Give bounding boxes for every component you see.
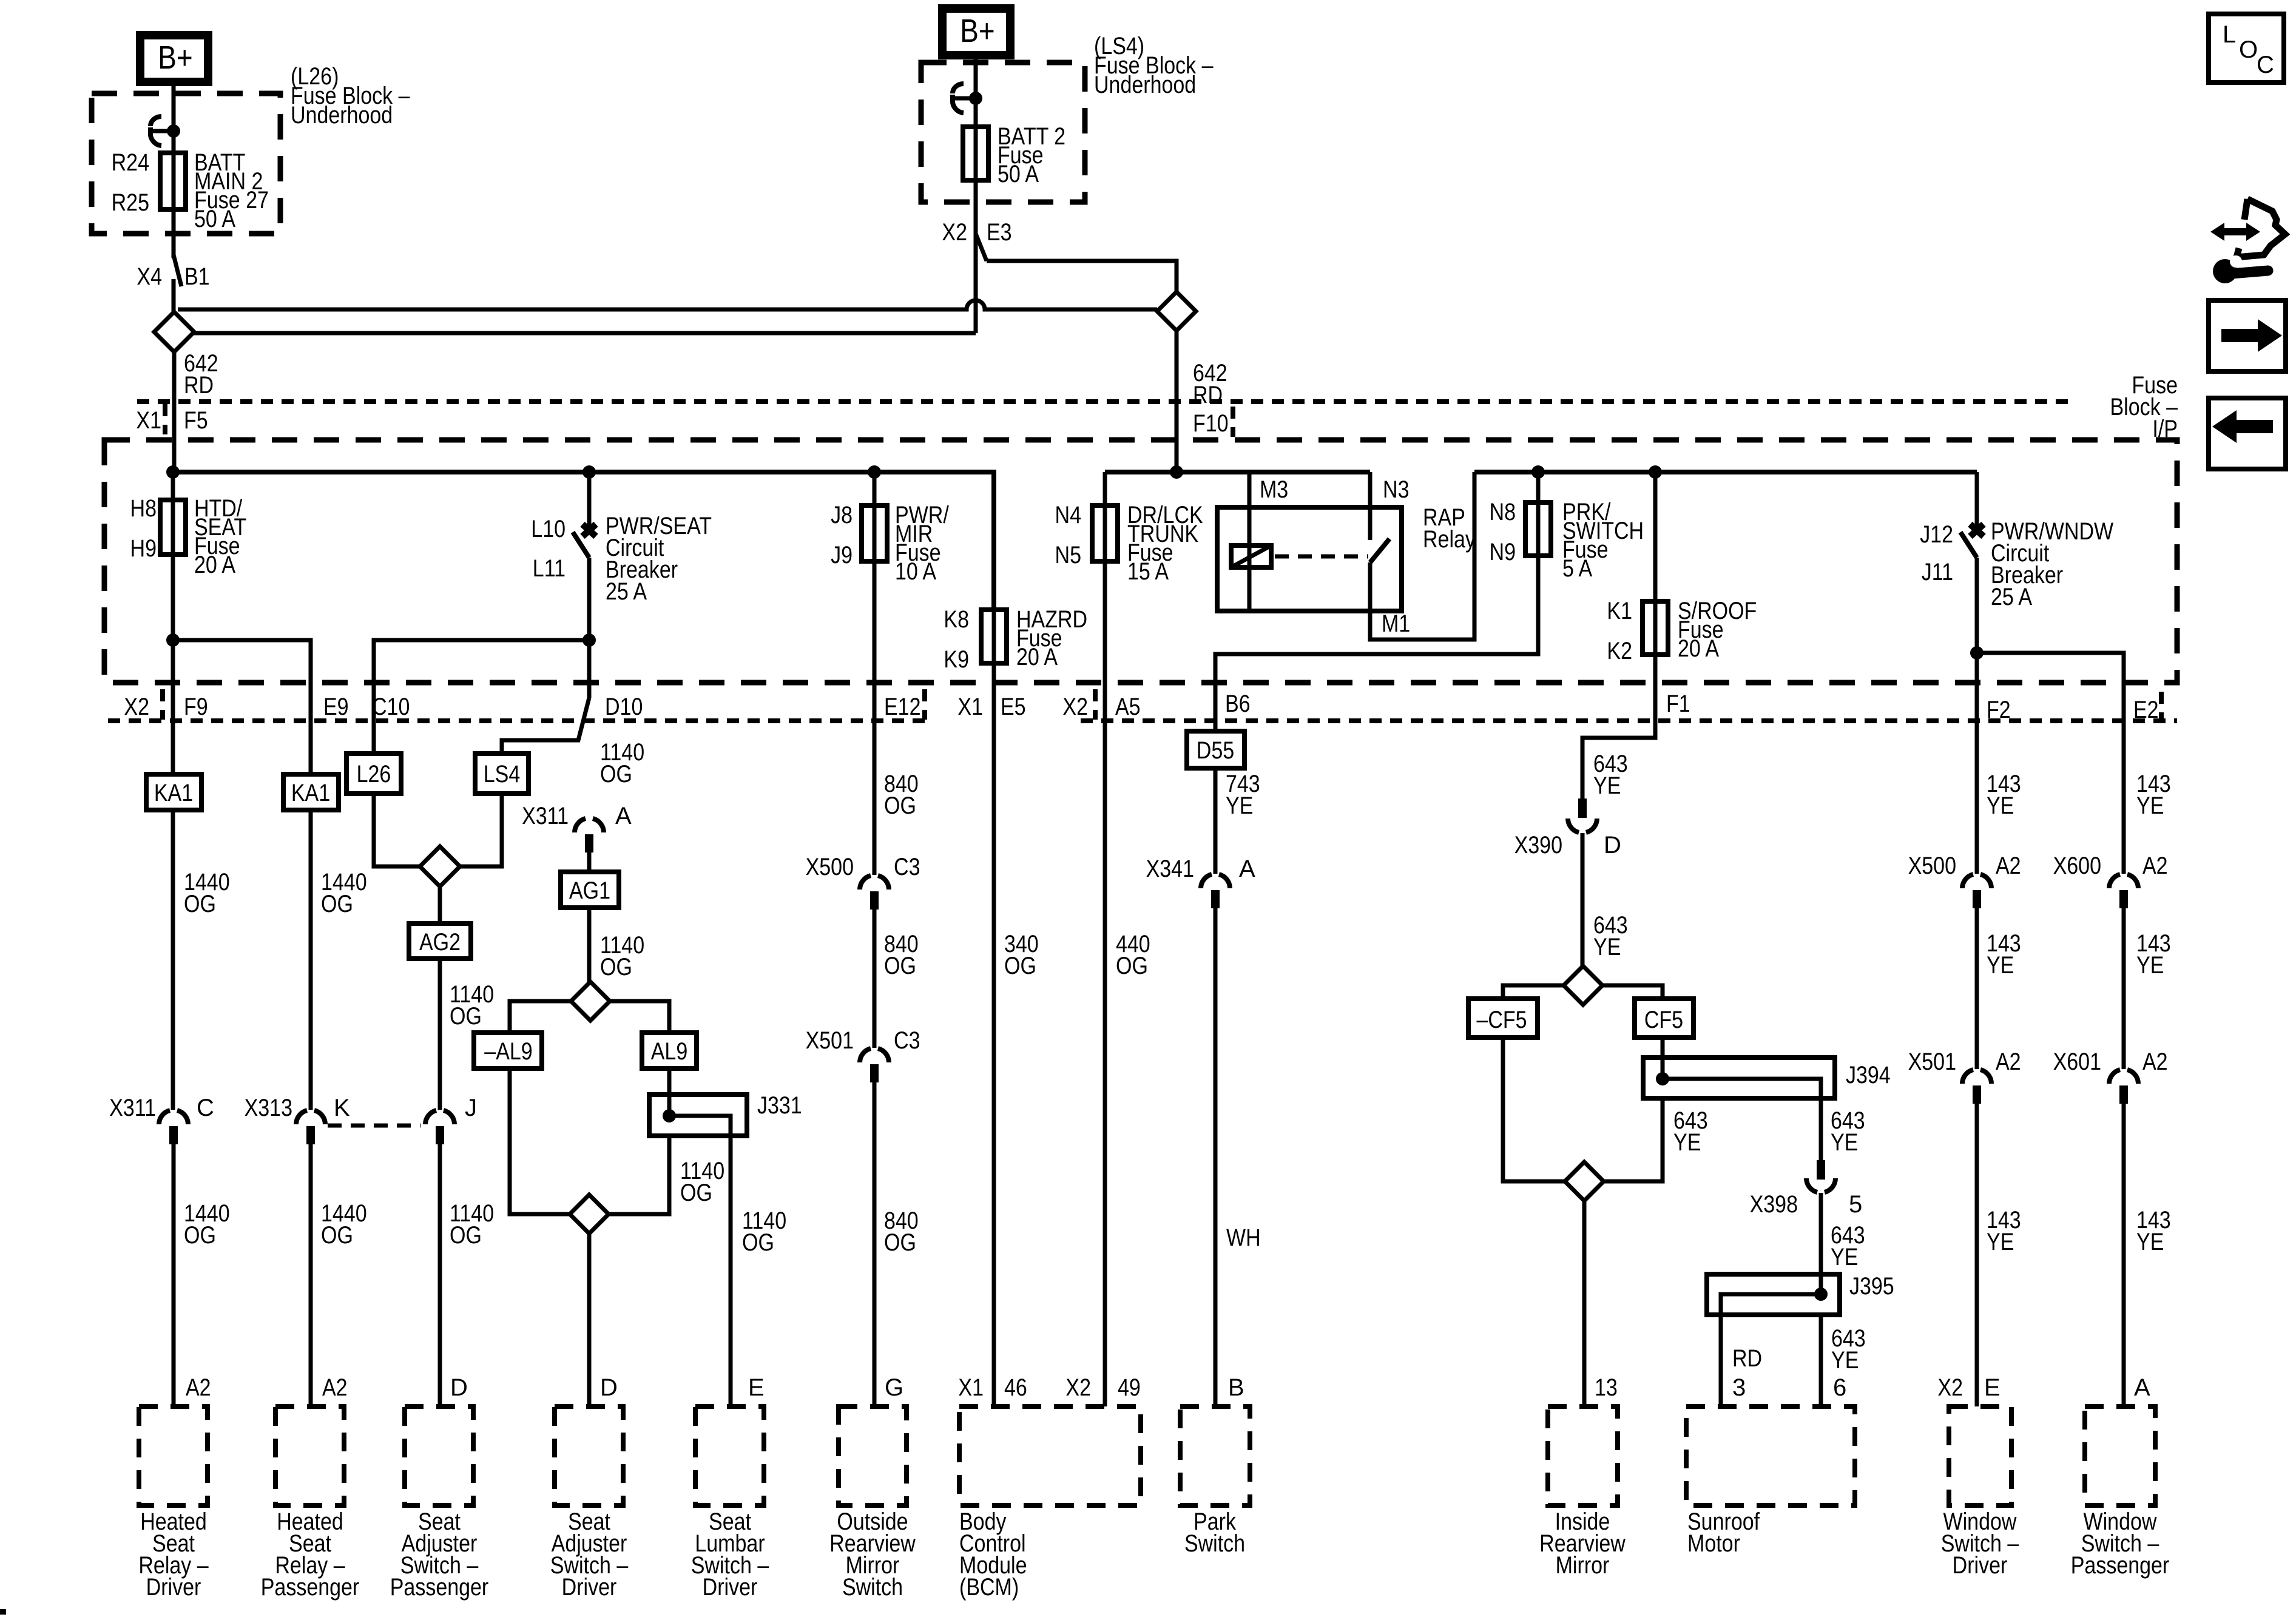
svg-text:J9: J9: [831, 542, 853, 569]
svg-text:Driver: Driver: [1953, 1552, 2008, 1579]
svg-text:Underhood: Underhood: [1094, 72, 1196, 98]
svg-text:N9: N9: [1490, 539, 1516, 565]
svg-text:KA1: KA1: [154, 780, 193, 806]
svg-text:D55: D55: [1197, 737, 1234, 764]
svg-text:X1: X1: [958, 1374, 984, 1401]
svg-text:YE: YE: [1593, 934, 1621, 960]
svg-text:RD: RD: [1193, 382, 1223, 408]
svg-text:E5: E5: [1001, 694, 1026, 720]
svg-text:J331: J331: [757, 1092, 802, 1119]
svg-text:F2: F2: [1987, 697, 2011, 723]
svg-text:J11: J11: [1922, 559, 1953, 586]
svg-text:YE: YE: [1831, 1244, 1858, 1271]
svg-text:YE: YE: [1987, 1229, 2014, 1255]
svg-text:OG: OG: [600, 761, 632, 788]
svg-text:X501: X501: [1908, 1048, 1956, 1075]
svg-text:Relay: Relay: [1423, 526, 1476, 553]
svg-text:M3: M3: [1260, 476, 1288, 503]
svg-text:F1: F1: [1666, 690, 1690, 717]
svg-text:46: 46: [1004, 1374, 1027, 1401]
svg-text:F10: F10: [1193, 410, 1229, 437]
svg-text:LS4: LS4: [484, 761, 521, 788]
svg-text:YE: YE: [1673, 1129, 1701, 1156]
svg-text:K2: K2: [1607, 638, 1632, 664]
svg-text:R24: R24: [112, 149, 149, 176]
svg-text:A2: A2: [2142, 852, 2168, 879]
svg-text:E: E: [1984, 1374, 2001, 1401]
svg-text:D10: D10: [605, 694, 643, 720]
svg-text:OG: OG: [450, 1222, 482, 1249]
svg-text:Driver: Driver: [562, 1574, 617, 1601]
svg-text:WH: WH: [1226, 1224, 1261, 1251]
svg-text:RD: RD: [1732, 1345, 1762, 1372]
svg-text:YE: YE: [1831, 1129, 1858, 1156]
svg-text:R25: R25: [112, 189, 149, 216]
svg-text:E: E: [748, 1374, 765, 1401]
svg-text:10 A: 10 A: [895, 558, 936, 585]
svg-text:N8: N8: [1490, 499, 1516, 525]
svg-text:YE: YE: [1226, 792, 1253, 819]
svg-text:X600: X600: [2053, 852, 2101, 879]
svg-text:OG: OG: [884, 792, 916, 819]
svg-text:OG: OG: [321, 891, 353, 917]
svg-text:Passenger: Passenger: [261, 1574, 360, 1601]
svg-text:J8: J8: [831, 502, 853, 528]
svg-text:B+: B+: [960, 13, 994, 49]
svg-text:G: G: [885, 1374, 903, 1401]
svg-text:–AL9: –AL9: [484, 1038, 532, 1065]
svg-text:OG: OG: [600, 954, 632, 981]
svg-text:Passenger: Passenger: [2071, 1552, 2170, 1579]
svg-text:AL9: AL9: [651, 1038, 688, 1065]
svg-text:Driver: Driver: [703, 1574, 758, 1601]
svg-text:50 A: 50 A: [194, 206, 235, 232]
svg-text:YE: YE: [2136, 952, 2164, 979]
svg-text:YE: YE: [2136, 1229, 2164, 1255]
svg-text:A: A: [615, 803, 632, 829]
svg-text:E2: E2: [2133, 697, 2159, 723]
svg-text:K1: K1: [1607, 598, 1632, 624]
svg-text:B: B: [1228, 1374, 1244, 1401]
svg-text:X341: X341: [1146, 856, 1194, 882]
svg-text:A2: A2: [2142, 1048, 2168, 1075]
svg-text:OG: OG: [1116, 953, 1148, 979]
svg-text:X2: X2: [1062, 694, 1088, 720]
svg-text:5 A: 5 A: [1562, 555, 1592, 582]
svg-text:Switch: Switch: [1184, 1530, 1245, 1557]
svg-text:X501: X501: [806, 1027, 854, 1054]
svg-text:–CF5: –CF5: [1476, 1007, 1527, 1033]
svg-text:A: A: [1239, 856, 1255, 882]
svg-text:OG: OG: [884, 953, 916, 979]
svg-text:D: D: [600, 1374, 618, 1401]
svg-text:Underhood: Underhood: [291, 102, 393, 129]
svg-text:X500: X500: [1908, 852, 1956, 879]
svg-text:N3: N3: [1383, 476, 1410, 503]
svg-text:H9: H9: [130, 535, 157, 562]
svg-text:X2: X2: [124, 694, 149, 720]
svg-text:25 A: 25 A: [1991, 584, 2032, 610]
svg-text:C3: C3: [894, 854, 920, 880]
svg-text:B1: B1: [184, 263, 210, 290]
svg-text:K8: K8: [944, 606, 969, 633]
svg-text:X601: X601: [2053, 1048, 2101, 1075]
svg-text:15 A: 15 A: [1127, 558, 1169, 585]
svg-text:J394: J394: [1846, 1062, 1891, 1089]
svg-text:20 A: 20 A: [194, 552, 235, 578]
svg-text:E12: E12: [884, 694, 921, 720]
svg-text:J: J: [465, 1095, 477, 1121]
svg-text:20 A: 20 A: [1678, 635, 1719, 662]
svg-text:X1: X1: [957, 694, 983, 720]
svg-text:X398: X398: [1750, 1191, 1798, 1218]
svg-text:X2: X2: [1065, 1374, 1091, 1401]
svg-text:J12: J12: [1920, 521, 1953, 548]
svg-text:C10: C10: [372, 694, 410, 720]
svg-text:OG: OG: [184, 891, 216, 917]
svg-text:YE: YE: [1593, 772, 1621, 799]
svg-text:X311: X311: [522, 803, 569, 829]
svg-text:K9: K9: [944, 646, 969, 673]
svg-text:AG2: AG2: [419, 929, 461, 956]
svg-text:AG1: AG1: [569, 877, 610, 904]
svg-text:A5: A5: [1115, 694, 1141, 720]
svg-text:D: D: [450, 1374, 468, 1401]
svg-text:5: 5: [1849, 1191, 1862, 1218]
svg-text:OG: OG: [321, 1222, 353, 1249]
svg-text:Mirror: Mirror: [1556, 1552, 1610, 1579]
svg-text:C: C: [2257, 52, 2274, 78]
svg-text:YE: YE: [1987, 952, 2014, 979]
svg-text:13: 13: [1595, 1374, 1618, 1401]
svg-text:3: 3: [1732, 1374, 1746, 1401]
svg-text:YE: YE: [2136, 792, 2164, 819]
svg-text:RD: RD: [184, 372, 214, 399]
svg-text:OG: OG: [680, 1180, 712, 1206]
svg-text:A2: A2: [186, 1374, 211, 1401]
svg-text:Motor: Motor: [1687, 1530, 1740, 1557]
svg-text:O: O: [2239, 36, 2258, 63]
svg-text:Switch: Switch: [842, 1574, 903, 1601]
svg-text:N5: N5: [1055, 542, 1082, 569]
svg-text:X390: X390: [1514, 832, 1562, 859]
svg-text:OG: OG: [184, 1222, 216, 1249]
svg-text:B+: B+: [158, 39, 192, 76]
svg-text:X311: X311: [109, 1095, 156, 1121]
svg-text:N4: N4: [1055, 502, 1082, 528]
svg-text:X2: X2: [1937, 1374, 1963, 1401]
svg-text:F5: F5: [184, 407, 208, 434]
svg-text:50 A: 50 A: [998, 161, 1039, 187]
svg-text:L10: L10: [531, 516, 566, 542]
svg-text:25 A: 25 A: [606, 578, 647, 605]
svg-text:X500: X500: [806, 854, 854, 880]
svg-text:OG: OG: [884, 1229, 916, 1256]
svg-text:L: L: [2223, 21, 2236, 48]
svg-text:L11: L11: [533, 555, 566, 582]
svg-text:X4: X4: [137, 263, 162, 290]
svg-text:D: D: [1604, 832, 1621, 859]
svg-text:YE: YE: [1831, 1347, 1859, 1374]
svg-text:Driver: Driver: [146, 1574, 201, 1601]
svg-text:F9: F9: [184, 694, 208, 720]
svg-text:C3: C3: [894, 1027, 920, 1054]
svg-text:OG: OG: [742, 1229, 774, 1256]
svg-text:KA1: KA1: [291, 780, 330, 806]
svg-text:A2: A2: [1996, 852, 2021, 879]
svg-text:Passenger: Passenger: [390, 1574, 489, 1601]
svg-text:A2: A2: [322, 1374, 348, 1401]
svg-text:H8: H8: [130, 495, 157, 522]
svg-text:49: 49: [1118, 1374, 1141, 1401]
svg-text:6: 6: [1833, 1374, 1846, 1401]
svg-text:C: C: [197, 1095, 214, 1121]
svg-text:CF5: CF5: [1644, 1007, 1683, 1033]
svg-text:K: K: [334, 1095, 350, 1121]
svg-text:E9: E9: [323, 694, 349, 720]
svg-text:J395: J395: [1849, 1273, 1894, 1300]
svg-text:(BCM): (BCM): [959, 1574, 1019, 1601]
svg-text:X1: X1: [136, 407, 161, 434]
svg-text:B6: B6: [1225, 690, 1251, 717]
svg-text:X2: X2: [942, 219, 967, 246]
svg-text:YE: YE: [1987, 792, 2014, 819]
svg-text:A: A: [2134, 1374, 2150, 1401]
svg-text:X313: X313: [245, 1095, 292, 1121]
svg-text:20 A: 20 A: [1016, 644, 1058, 670]
svg-text:A2: A2: [1996, 1048, 2021, 1075]
svg-text:L26: L26: [357, 761, 391, 788]
svg-text:OG: OG: [1004, 953, 1036, 979]
svg-text:E3: E3: [987, 219, 1012, 246]
svg-text:OG: OG: [450, 1003, 482, 1030]
svg-text:M1: M1: [1382, 610, 1410, 637]
